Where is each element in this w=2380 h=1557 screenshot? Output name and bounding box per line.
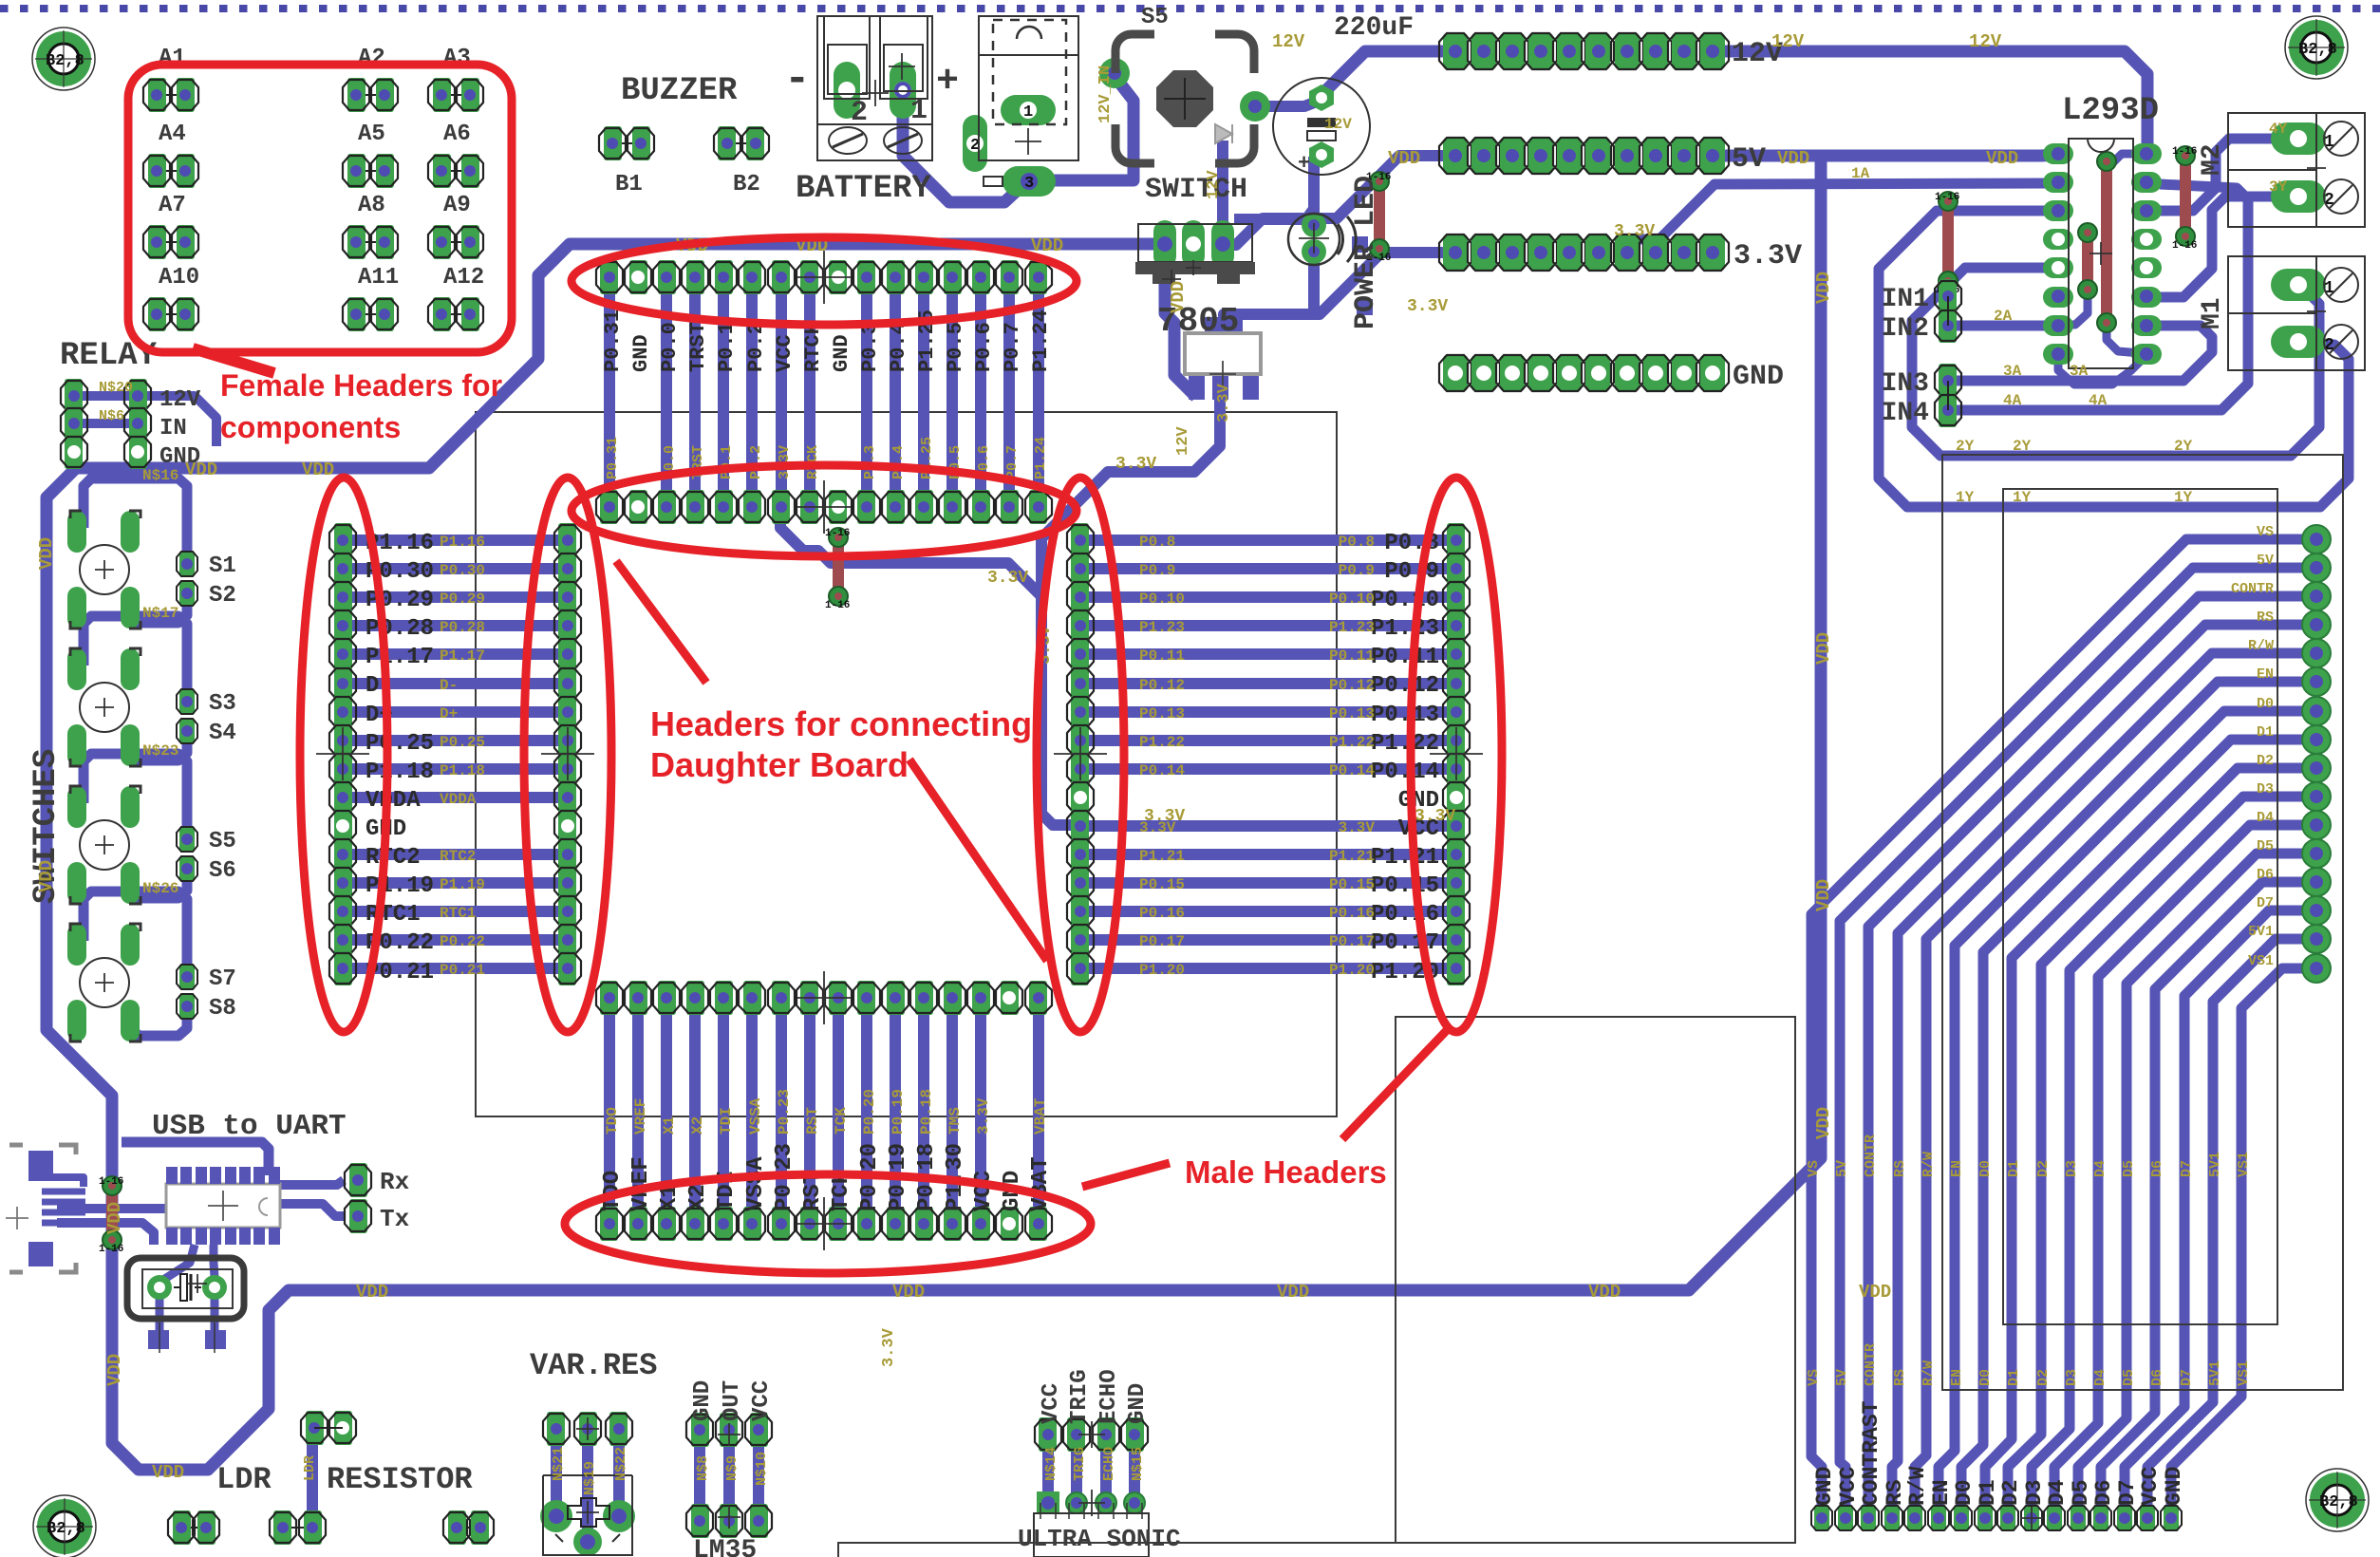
svg-text:RTC2: RTC2 bbox=[440, 848, 476, 865]
male header row pads bbox=[600, 1207, 618, 1241]
svg-text:P1.20: P1.20 bbox=[1139, 962, 1185, 979]
svg-text:N$26: N$26 bbox=[142, 880, 178, 897]
wire switch to cap bbox=[1255, 100, 1321, 106]
power LED pads bbox=[1302, 213, 1326, 237]
svg-text:D0: D0 bbox=[1977, 1369, 1994, 1386]
svg-text:N$10: N$10 bbox=[754, 1452, 770, 1486]
svg-text:P0.12: P0.12 bbox=[1371, 673, 1439, 699]
svg-text:1-16: 1-16 bbox=[99, 1176, 123, 1188]
wire row1-row2 verticals bbox=[604, 277, 615, 507]
big bottom center rectangle bbox=[1396, 1017, 1795, 1543]
svg-text:VCC: VCC bbox=[2138, 1466, 2163, 1506]
svg-text:VS1: VS1 bbox=[2236, 1360, 2252, 1386]
battery pads bbox=[834, 62, 860, 119]
svg-text:EN: EN bbox=[1949, 1369, 1965, 1386]
wire relay stubs bbox=[74, 391, 138, 401]
svg-text:3.3V: 3.3V bbox=[1614, 222, 1655, 241]
svg-text:D7: D7 bbox=[2257, 895, 2274, 911]
svg-text:S4: S4 bbox=[209, 721, 236, 746]
svg-text:CONTR: CONTR bbox=[2231, 581, 2274, 597]
relay pads bbox=[65, 379, 83, 413]
bottom partial rectangle bbox=[838, 1543, 1396, 1557]
svg-text:P1.21: P1.21 bbox=[1139, 848, 1185, 865]
svg-text:3.3V: 3.3V bbox=[1139, 819, 1176, 836]
svg-text:ECHO: ECHO bbox=[1101, 1447, 1117, 1481]
buzzer pads B1 B2 bbox=[612, 142, 641, 144]
svg-text:VDD: VDD bbox=[1588, 1282, 1621, 1303]
svg-text:VDD: VDD bbox=[104, 1354, 125, 1386]
svg-text:P0.13: P0.13 bbox=[1139, 705, 1185, 722]
svg-text:TRIG: TRIG bbox=[1072, 1447, 1088, 1481]
svg-text:P0.11: P0.11 bbox=[1329, 647, 1375, 665]
svg-text:1-16: 1-16 bbox=[825, 600, 850, 611]
svg-text:D2: D2 bbox=[2035, 1160, 2052, 1177]
svg-text:1: 1 bbox=[910, 95, 928, 127]
svg-text:2Y: 2Y bbox=[2013, 438, 2032, 455]
M1 terminal pads bbox=[2271, 269, 2326, 301]
svg-text:D1: D1 bbox=[2257, 724, 2274, 741]
svg-text:P0.13: P0.13 bbox=[1329, 705, 1375, 722]
svg-text:P0.29: P0.29 bbox=[440, 591, 485, 608]
svg-text:P0.10: P0.10 bbox=[1329, 591, 1375, 608]
svg-text:P1.22: P1.22 bbox=[1139, 734, 1185, 751]
svg-text:1Y: 1Y bbox=[2013, 489, 2032, 506]
wire IN4 to 4A bbox=[1948, 184, 2248, 410]
svg-text:BUZZER: BUZZER bbox=[621, 73, 738, 109]
svg-text:RESISTOR: RESISTOR bbox=[327, 1462, 473, 1497]
crystal smd stubs bbox=[148, 1330, 169, 1349]
svg-text:VDD: VDD bbox=[1986, 148, 2018, 169]
svg-text:Tx: Tx bbox=[380, 1205, 409, 1233]
svg-text:3.3V: 3.3V bbox=[880, 1327, 898, 1367]
svg-text:P0.8: P0.8 bbox=[1339, 534, 1375, 551]
svg-text:2: 2 bbox=[2324, 191, 2334, 210]
wire USB pins bbox=[42, 1189, 85, 1195]
svg-text:2Y: 2Y bbox=[2174, 438, 2193, 455]
svg-text:P0.11: P0.11 bbox=[1371, 645, 1439, 670]
via link USB bbox=[106, 1186, 118, 1240]
svg-text:TRIG: TRIG bbox=[1067, 1369, 1093, 1424]
svg-text:P0.9: P0.9 bbox=[1384, 559, 1439, 585]
M2 terminal pads bbox=[2271, 122, 2326, 155]
svg-text:GND: GND bbox=[830, 334, 853, 372]
via link near power led bbox=[1374, 181, 1385, 249]
svg-text:SWITCH: SWITCH bbox=[1145, 174, 1247, 206]
VAR.RES pot outline bbox=[543, 1475, 632, 1555]
svg-text:12V: 12V bbox=[1272, 31, 1305, 52]
svg-text:12V: 12V bbox=[1969, 31, 2002, 52]
svg-text:D1: D1 bbox=[1976, 1479, 2000, 1506]
svg-text:P0.9: P0.9 bbox=[1139, 562, 1175, 579]
svg-text:P0.16: P0.16 bbox=[1329, 905, 1375, 922]
svg-text:GND: GND bbox=[629, 334, 653, 372]
svg-text:CONTRAST: CONTRAST bbox=[1859, 1400, 1883, 1506]
svg-text:1: 1 bbox=[1023, 103, 1033, 122]
Rx Tx pads bbox=[349, 1163, 367, 1197]
ULTRASONIC bottom vias bbox=[1037, 1491, 1059, 1514]
switch S5 ring pads bbox=[1099, 58, 1130, 88]
svg-text:D6: D6 bbox=[2257, 867, 2274, 883]
svg-text:D4: D4 bbox=[2257, 810, 2274, 826]
svg-text:VCC: VCC bbox=[1836, 1466, 1861, 1506]
svg-text:D7: D7 bbox=[2115, 1479, 2140, 1506]
svg-text:RST: RST bbox=[804, 1107, 821, 1135]
switch S5 button bbox=[1156, 70, 1213, 127]
svg-text:P0.9: P0.9 bbox=[1339, 562, 1375, 579]
svg-text:P0.10: P0.10 bbox=[1139, 591, 1185, 608]
svg-text:D3: D3 bbox=[2257, 781, 2274, 797]
svg-text:EN: EN bbox=[2257, 666, 2274, 683]
svg-text:VDD: VDD bbox=[36, 860, 57, 892]
svg-text:N$19: N$19 bbox=[582, 1461, 598, 1495]
wire IN2 to 2A bbox=[1948, 321, 2058, 331]
ULTRASONIC bottom outline bbox=[1034, 1513, 1149, 1557]
svg-text:M2: M2 bbox=[2198, 143, 2227, 176]
svg-text:ULTRA SONIC: ULTRA SONIC bbox=[1018, 1525, 1181, 1553]
via link L293D VDD bbox=[2082, 233, 2093, 290]
wire switch bottom to cap minus bbox=[1217, 141, 1228, 239]
svg-text:-: - bbox=[784, 55, 811, 104]
svg-text:P1.24: P1.24 bbox=[1033, 437, 1049, 479]
svg-text:VDD: VDD bbox=[152, 1462, 184, 1483]
svg-text:S7: S7 bbox=[209, 966, 236, 992]
svg-text:5V: 5V bbox=[2257, 553, 2274, 569]
svg-text:R/W: R/W bbox=[1921, 1360, 1937, 1386]
svg-text:P0.31: P0.31 bbox=[601, 310, 625, 372]
svg-text:P0.21: P0.21 bbox=[440, 962, 485, 979]
wire LDR trace bbox=[307, 1428, 318, 1529]
M2 outline bbox=[2228, 113, 2365, 227]
svg-text:D0: D0 bbox=[2257, 696, 2274, 712]
switch S5 outline bbox=[1115, 34, 1254, 163]
red line female headers bbox=[193, 348, 274, 373]
svg-text:N$16: N$16 bbox=[142, 467, 178, 484]
wire LCD fan traces bbox=[1811, 539, 2316, 1518]
svg-text:P0.8: P0.8 bbox=[1139, 534, 1175, 551]
svg-text:P0.19: P0.19 bbox=[890, 1089, 907, 1135]
svg-text:VCC: VCC bbox=[749, 1380, 775, 1421]
svg-text:VDD: VDD bbox=[185, 460, 217, 480]
svg-text:A5: A5 bbox=[358, 122, 385, 147]
red line male headers 2 bbox=[1342, 1027, 1450, 1139]
svg-text:1-16: 1-16 bbox=[2172, 146, 2197, 158]
column C pads bbox=[1071, 523, 1089, 557]
svg-text:A11: A11 bbox=[358, 265, 399, 291]
svg-text:N$23: N$23 bbox=[142, 742, 178, 760]
svg-text:Daughter Board: Daughter Board bbox=[650, 745, 909, 784]
svg-text:P0.18: P0.18 bbox=[918, 1089, 935, 1135]
svg-text:P0.17: P0.17 bbox=[1139, 933, 1185, 950]
wire ULTRASONIC traces bbox=[1042, 1435, 1054, 1503]
svg-text:LDR: LDR bbox=[302, 1455, 318, 1481]
VAR.RES header pads bbox=[547, 1412, 565, 1446]
svg-text:P0.20: P0.20 bbox=[861, 1089, 878, 1135]
svg-text:VSSA: VSSA bbox=[747, 1097, 764, 1135]
svg-text:P0.31: P0.31 bbox=[605, 437, 621, 479]
red ellipse column B bbox=[524, 478, 611, 1032]
svg-text:TMS: TMS bbox=[946, 1107, 964, 1135]
svg-text:P0.17: P0.17 bbox=[1371, 930, 1439, 956]
svg-text:P0.25: P0.25 bbox=[365, 731, 434, 757]
svg-text:1: 1 bbox=[2324, 279, 2334, 298]
svg-text:S5: S5 bbox=[1141, 5, 1169, 30]
via link VSS near row2 bbox=[833, 537, 844, 596]
svg-text:3.3V: 3.3V bbox=[1339, 819, 1376, 836]
wire battery to jack to switch bbox=[903, 90, 1030, 202]
svg-text:M1: M1 bbox=[2198, 297, 2227, 329]
svg-text:P0.14: P0.14 bbox=[1329, 762, 1375, 779]
wire VDD main loop left-bottom-right bbox=[70, 244, 1165, 468]
power LED outline bbox=[1288, 214, 1340, 265]
svg-text:2A: 2A bbox=[1994, 308, 2013, 325]
via link L293D 12V bbox=[2101, 161, 2112, 323]
svg-text:N$8: N$8 bbox=[695, 1455, 711, 1481]
svg-text:1: 1 bbox=[2324, 133, 2334, 152]
svg-text:1-16: 1-16 bbox=[99, 1244, 123, 1255]
wire 3.3V LM1117 to 3.3V row bbox=[1224, 253, 1455, 321]
svg-text:IN3: IN3 bbox=[1882, 369, 1929, 399]
svg-text:RTC2: RTC2 bbox=[365, 845, 421, 871]
svg-text:X2: X2 bbox=[689, 1116, 706, 1135]
LM35 pads bbox=[691, 1413, 709, 1447]
svg-text:TDO: TDO bbox=[604, 1107, 621, 1135]
SOIC IC outline bbox=[166, 1184, 280, 1228]
svg-text:A6: A6 bbox=[443, 122, 471, 147]
svg-text:RTC1: RTC1 bbox=[440, 905, 476, 922]
svg-text:+: + bbox=[936, 61, 959, 103]
svg-text:VCC: VCC bbox=[1039, 1383, 1064, 1424]
svg-text:12V: 12V bbox=[1174, 426, 1192, 456]
svg-text:VDD: VDD bbox=[892, 1282, 925, 1303]
svg-text:5V: 5V bbox=[1834, 1160, 1850, 1177]
svg-text:N$21: N$21 bbox=[551, 1447, 567, 1481]
svg-text:P0.15: P0.15 bbox=[1329, 876, 1375, 893]
svg-text:B2,8: B2,8 bbox=[46, 52, 84, 70]
daughter board outline bbox=[476, 412, 1337, 1116]
red rounded rect female headers bbox=[128, 65, 512, 352]
wire L293D 1Y loop bbox=[1879, 211, 2349, 507]
svg-text:GND: GND bbox=[690, 1380, 716, 1421]
via link M2 bbox=[2180, 156, 2191, 236]
svg-text:P1.18: P1.18 bbox=[440, 762, 485, 779]
svg-text:S5: S5 bbox=[209, 829, 236, 854]
svg-text:P0.25: P0.25 bbox=[440, 734, 485, 751]
svg-text:N$9: N$9 bbox=[724, 1455, 740, 1481]
power rail GND pads bbox=[1443, 355, 1468, 391]
wire M2 pin1 4Y bbox=[2160, 139, 2278, 211]
svg-text:EN: EN bbox=[1949, 1160, 1965, 1177]
svg-text:X2: X2 bbox=[685, 1184, 711, 1211]
LM1117 smd pads bbox=[1205, 317, 1243, 333]
svg-text:N$6: N$6 bbox=[99, 408, 124, 424]
svg-text:P1.20: P1.20 bbox=[1329, 962, 1375, 979]
svg-text:P1.17: P1.17 bbox=[440, 647, 485, 665]
svg-text:VDDA: VDDA bbox=[440, 791, 477, 808]
header bottom row pads bbox=[600, 981, 618, 1015]
bottom resistor pads bbox=[181, 1527, 206, 1529]
svg-text:D7: D7 bbox=[2179, 1160, 2195, 1177]
crystal symbol bbox=[174, 1286, 180, 1288]
svg-text:1-16: 1-16 bbox=[1935, 192, 1959, 203]
svg-text:P0.7: P0.7 bbox=[1001, 322, 1024, 372]
svg-text:B2,8: B2,8 bbox=[47, 1520, 85, 1538]
wire IN3 to 3A bbox=[1948, 326, 2212, 381]
svg-text:P1.21: P1.21 bbox=[1329, 848, 1375, 865]
svg-text:GND: GND bbox=[1125, 1383, 1151, 1424]
svg-text:OUT: OUT bbox=[720, 1380, 745, 1421]
svg-text:D6: D6 bbox=[2149, 1160, 2165, 1177]
svg-text:LM35: LM35 bbox=[693, 1536, 757, 1557]
svg-text:P0.4: P0.4 bbox=[890, 445, 907, 479]
svg-text:VDD: VDD bbox=[1813, 272, 1834, 304]
svg-text:RS: RS bbox=[2257, 610, 2274, 626]
red line to Headers text bbox=[616, 561, 706, 683]
svg-text:S1: S1 bbox=[209, 553, 236, 579]
svg-text:D2: D2 bbox=[2035, 1369, 2052, 1386]
svg-text:3Y: 3Y bbox=[2269, 178, 2288, 196]
svg-text:N$17: N$17 bbox=[142, 605, 178, 622]
svg-text:VS: VS bbox=[2257, 524, 2274, 540]
svg-text:VDD: VDD bbox=[1813, 879, 1834, 911]
svg-text:VDD: VDD bbox=[1813, 1107, 1834, 1139]
red ellipse column A bbox=[300, 478, 387, 1032]
red ellipse male header bbox=[565, 1174, 1091, 1273]
svg-text:R/W: R/W bbox=[1921, 1152, 1937, 1177]
svg-text:P0.30: P0.30 bbox=[440, 562, 485, 579]
svg-text:RS: RS bbox=[1892, 1369, 1908, 1386]
svg-text:VDD: VDD bbox=[302, 460, 334, 480]
svg-text:D2: D2 bbox=[1998, 1479, 2023, 1506]
svg-text:1-16: 1-16 bbox=[825, 528, 850, 539]
LCD round pad column bbox=[2302, 525, 2331, 553]
svg-text:Female Headers for: Female Headers for bbox=[220, 368, 502, 403]
svg-text:D2: D2 bbox=[2257, 753, 2274, 769]
svg-text:4Y: 4Y bbox=[2269, 121, 2288, 138]
svg-text:GND: GND bbox=[2162, 1467, 2186, 1506]
svg-text:VREF: VREF bbox=[632, 1098, 649, 1135]
header row1 pads bbox=[600, 260, 618, 294]
svg-text:S2: S2 bbox=[209, 583, 236, 609]
svg-text:D4: D4 bbox=[2045, 1479, 2070, 1506]
svg-text:P1.23: P1.23 bbox=[1329, 619, 1375, 636]
red line from Daughter Board text bbox=[909, 760, 1047, 961]
svg-text:CONTR: CONTR bbox=[1863, 1343, 1879, 1386]
svg-text:P0.10: P0.10 bbox=[1371, 588, 1439, 613]
red line male headers 1 bbox=[1082, 1163, 1170, 1187]
svg-text:12V_IN: 12V_IN bbox=[1096, 66, 1115, 123]
LDR pads bbox=[306, 1411, 324, 1445]
svg-text:VDD: VDD bbox=[356, 1282, 388, 1303]
svg-text:3.3V: 3.3V bbox=[1115, 455, 1156, 474]
svg-text:P1.16: P1.16 bbox=[440, 534, 485, 551]
svg-text:D4: D4 bbox=[2092, 1369, 2108, 1386]
svg-text:D-: D- bbox=[440, 677, 458, 694]
svg-text:1-16: 1-16 bbox=[2172, 240, 2197, 252]
svg-text:P0.14: P0.14 bbox=[1371, 760, 1439, 785]
svg-text:N$14: N$14 bbox=[1043, 1447, 1059, 1481]
svg-text:P0.1: P0.1 bbox=[715, 322, 739, 372]
svg-text:N$22: N$22 bbox=[613, 1447, 629, 1481]
svg-text:VDDA: VDDA bbox=[365, 788, 421, 814]
svg-text:P1.17: P1.17 bbox=[365, 645, 434, 670]
svg-text:3.3V: 3.3V bbox=[987, 569, 1028, 588]
svg-text:P0.0: P0.0 bbox=[658, 322, 682, 372]
svg-text:P1.24: P1.24 bbox=[1029, 310, 1053, 372]
svg-text:D3: D3 bbox=[2064, 1160, 2080, 1177]
LM1117 outline bbox=[1185, 333, 1261, 374]
svg-text:P0.14: P0.14 bbox=[1139, 762, 1185, 779]
crystal pads bbox=[147, 1275, 172, 1300]
svg-text:B2,8: B2,8 bbox=[2298, 41, 2337, 59]
svg-text:3A: 3A bbox=[2003, 363, 2022, 380]
svg-text:VS1: VS1 bbox=[2236, 1152, 2252, 1177]
svg-text:12V: 12V bbox=[1205, 170, 1223, 199]
svg-text:A8: A8 bbox=[358, 193, 385, 218]
svg-text:VDD: VDD bbox=[1859, 1282, 1891, 1303]
svg-text:P0.16: P0.16 bbox=[1371, 902, 1439, 928]
7805 outline bbox=[1138, 224, 1252, 262]
power jack pads bbox=[1001, 95, 1056, 125]
svg-text:P0.11: P0.11 bbox=[1139, 647, 1185, 665]
svg-text:VBAT: VBAT bbox=[1032, 1097, 1049, 1135]
svg-text:P1.22: P1.22 bbox=[1371, 731, 1439, 757]
svg-text:P0.22: P0.22 bbox=[440, 933, 485, 950]
svg-text:A12: A12 bbox=[443, 265, 484, 291]
svg-text:A10: A10 bbox=[159, 265, 199, 291]
wire 3.3V LM1117 down to col C VCC bbox=[1041, 374, 1220, 825]
svg-text:CONTR: CONTR bbox=[1863, 1135, 1879, 1177]
svg-text:3.3V: 3.3V bbox=[1415, 807, 1455, 826]
svg-text:P1.19: P1.19 bbox=[365, 873, 434, 899]
red ellipse row2 bbox=[572, 465, 1077, 556]
switch footprints S1-S4 pads bbox=[67, 511, 86, 553]
svg-text:P0.5: P0.5 bbox=[944, 322, 967, 372]
svg-text:12V: 12V bbox=[1771, 31, 1805, 52]
svg-text:A4: A4 bbox=[159, 122, 186, 147]
svg-text:P0.3: P0.3 bbox=[858, 322, 882, 372]
capacitor 220uF pads bbox=[1309, 84, 1334, 111]
svg-text:D1: D1 bbox=[2006, 1160, 2022, 1177]
svg-text:5V: 5V bbox=[1834, 1369, 1850, 1386]
capacitor 220uF outline bbox=[1273, 78, 1370, 175]
svg-text:P0.7: P0.7 bbox=[1004, 445, 1021, 479]
svg-text:P0.12: P0.12 bbox=[1329, 677, 1375, 694]
svg-text:VS: VS bbox=[1806, 1369, 1822, 1386]
smd resistor pads bbox=[1352, 236, 1368, 253]
svg-text:VDD: VDD bbox=[36, 537, 57, 570]
column B pads bbox=[558, 523, 576, 557]
7805 pads bbox=[1153, 220, 1176, 268]
power rail 12V pads bbox=[1443, 33, 1468, 69]
led arrow symbol bbox=[1215, 124, 1232, 143]
wire 12V rail bbox=[1321, 51, 1455, 95]
svg-text:VBAT: VBAT bbox=[1028, 1156, 1054, 1211]
header row2 pads bbox=[600, 490, 618, 524]
svg-text:N$20: N$20 bbox=[99, 380, 133, 396]
svg-text:P0.1: P0.1 bbox=[719, 445, 735, 479]
svg-text:D+: D+ bbox=[440, 705, 458, 722]
svg-text:S6: S6 bbox=[209, 858, 236, 884]
svg-text:D1: D1 bbox=[2006, 1369, 2022, 1386]
wire L293D internal stubs bbox=[2107, 154, 2146, 195]
svg-text:S8: S8 bbox=[209, 996, 236, 1022]
svg-text:P0.6: P0.6 bbox=[972, 322, 996, 372]
battery terminal outline bbox=[817, 16, 932, 160]
svg-text:GND: GND bbox=[1812, 1467, 1837, 1506]
svg-text:D3: D3 bbox=[2064, 1369, 2080, 1386]
svg-text:D6: D6 bbox=[2149, 1369, 2165, 1386]
svg-text:D3: D3 bbox=[2022, 1479, 2047, 1506]
